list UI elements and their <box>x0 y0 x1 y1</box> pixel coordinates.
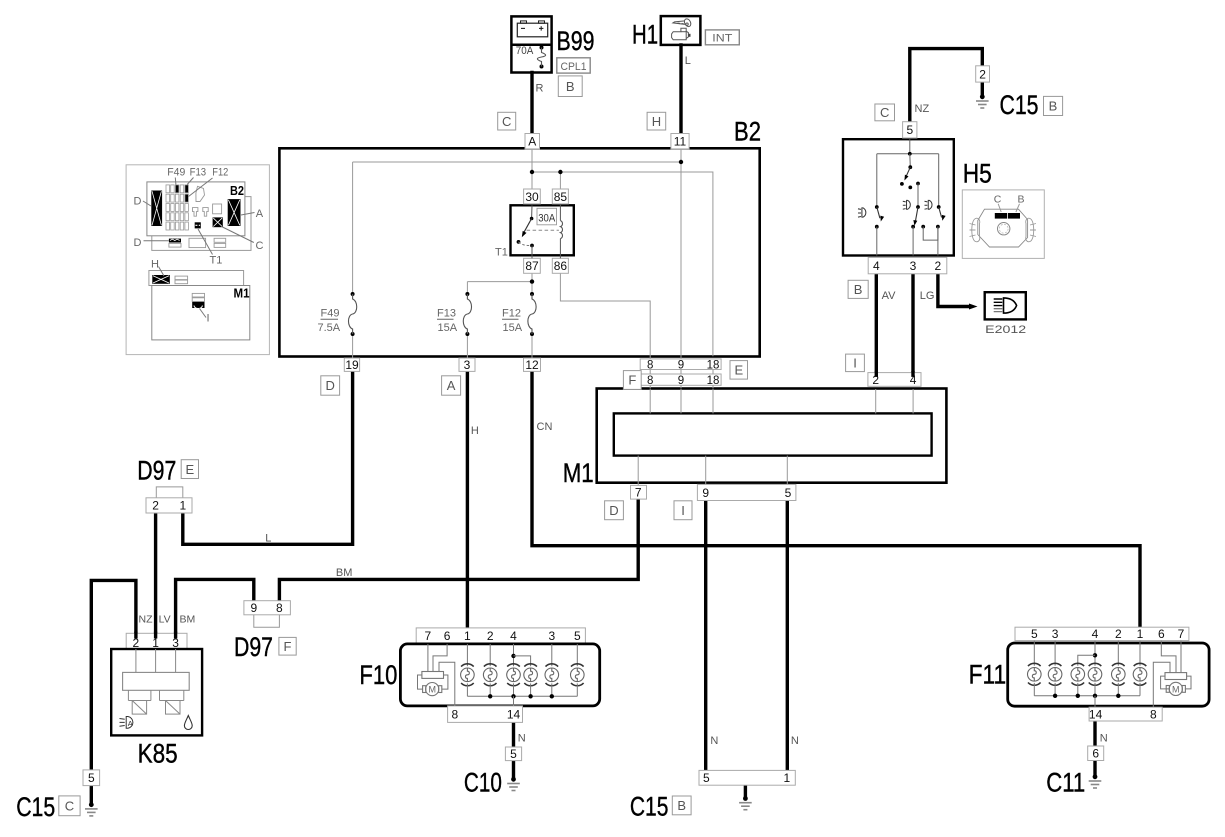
svg-text:5: 5 <box>1031 627 1038 641</box>
svg-text:D: D <box>134 196 142 208</box>
svg-text:B99: B99 <box>557 26 595 56</box>
svg-text:1: 1 <box>784 771 791 785</box>
svg-text:T1: T1 <box>495 246 508 258</box>
svg-text:2: 2 <box>152 499 159 513</box>
svg-text:F49: F49 <box>167 167 185 179</box>
svg-text:N: N <box>791 735 799 747</box>
svg-text:C15: C15 <box>1000 90 1039 120</box>
svg-text:1: 1 <box>464 629 471 643</box>
svg-text:30: 30 <box>525 190 539 204</box>
svg-text:AV: AV <box>882 290 897 302</box>
svg-text:L: L <box>265 533 271 545</box>
svg-text:9: 9 <box>678 375 684 387</box>
svg-text:6: 6 <box>444 629 451 643</box>
svg-text:F13: F13 <box>437 308 456 320</box>
svg-text:5: 5 <box>510 747 517 761</box>
svg-text:7: 7 <box>635 486 642 500</box>
svg-text:8: 8 <box>1150 707 1157 721</box>
svg-text:D: D <box>326 378 335 393</box>
svg-text:D: D <box>609 503 618 518</box>
svg-text:H: H <box>151 259 159 271</box>
svg-text:5: 5 <box>703 771 710 785</box>
svg-text:7.5A: 7.5A <box>318 322 341 334</box>
svg-text:M1: M1 <box>234 287 250 301</box>
svg-text:C: C <box>256 240 264 252</box>
svg-text:15A: 15A <box>503 322 523 334</box>
svg-text:C15: C15 <box>16 792 55 822</box>
svg-text:B: B <box>677 798 686 813</box>
svg-text:C10: C10 <box>464 768 502 798</box>
svg-text:87: 87 <box>525 259 539 273</box>
svg-text:5: 5 <box>574 629 581 643</box>
svg-text:8: 8 <box>647 375 653 387</box>
svg-text:F12: F12 <box>502 308 521 320</box>
svg-text:3: 3 <box>548 629 555 643</box>
svg-text:E2012: E2012 <box>985 324 1026 336</box>
svg-text:14: 14 <box>1089 707 1103 721</box>
svg-text:A: A <box>528 135 536 149</box>
svg-text:NZ: NZ <box>139 614 154 626</box>
svg-text:A: A <box>447 378 456 393</box>
svg-text:7: 7 <box>1178 627 1185 641</box>
svg-text:2: 2 <box>935 259 942 273</box>
svg-text:I: I <box>853 356 857 371</box>
svg-text:F: F <box>284 639 292 654</box>
svg-text:5: 5 <box>88 771 95 785</box>
svg-text:A: A <box>128 719 133 728</box>
svg-text:B2: B2 <box>230 184 244 198</box>
svg-text:19: 19 <box>345 358 359 372</box>
svg-text:1: 1 <box>1137 627 1144 641</box>
svg-text:4: 4 <box>510 629 517 643</box>
svg-text:F10: F10 <box>359 660 397 690</box>
svg-text:D97: D97 <box>234 632 273 662</box>
svg-text:9: 9 <box>250 601 257 615</box>
svg-text:15A: 15A <box>438 322 458 334</box>
svg-text:C: C <box>65 799 74 814</box>
svg-text:N: N <box>518 733 526 745</box>
svg-text:A: A <box>256 208 264 220</box>
svg-text:H5: H5 <box>963 158 992 188</box>
svg-text:M: M <box>428 685 436 695</box>
svg-text:6: 6 <box>1092 747 1099 761</box>
svg-text:C: C <box>880 105 889 120</box>
svg-text:M1: M1 <box>563 458 594 488</box>
svg-text:E: E <box>734 363 743 378</box>
svg-text:6: 6 <box>1158 627 1165 641</box>
svg-text:4: 4 <box>1092 627 1099 641</box>
svg-text:1: 1 <box>179 499 186 513</box>
svg-text:5: 5 <box>785 486 792 500</box>
svg-text:18: 18 <box>707 375 720 387</box>
svg-text:CN: CN <box>537 421 553 433</box>
svg-text:12: 12 <box>525 358 539 372</box>
svg-text:B: B <box>854 282 863 297</box>
svg-text:C11: C11 <box>1046 768 1085 798</box>
svg-text:T1: T1 <box>210 255 223 267</box>
svg-text:LV: LV <box>159 614 171 626</box>
svg-text:NZ: NZ <box>915 103 930 115</box>
svg-text:B: B <box>1017 194 1024 206</box>
svg-text:7: 7 <box>425 629 432 643</box>
svg-text:2: 2 <box>1115 627 1122 641</box>
svg-text:B2: B2 <box>734 117 761 147</box>
svg-text:8: 8 <box>276 601 283 615</box>
svg-text:2: 2 <box>979 67 986 81</box>
svg-text:H: H <box>471 425 479 437</box>
svg-text:R: R <box>536 83 544 95</box>
svg-text:F49: F49 <box>321 308 340 320</box>
svg-text:2: 2 <box>487 629 494 643</box>
svg-text:85: 85 <box>554 190 568 204</box>
svg-text:3: 3 <box>464 358 471 372</box>
svg-text:BM: BM <box>336 567 353 579</box>
svg-text:C15: C15 <box>630 792 669 822</box>
svg-text:F13: F13 <box>190 167 207 179</box>
svg-text:CPL1: CPL1 <box>561 61 587 73</box>
svg-text:I: I <box>207 313 210 325</box>
svg-text:H: H <box>652 114 661 129</box>
svg-text:H1: H1 <box>632 20 658 50</box>
svg-text:30A: 30A <box>538 212 556 224</box>
svg-text:C: C <box>994 194 1002 206</box>
svg-text:C: C <box>502 114 511 129</box>
svg-text:I: I <box>681 503 685 518</box>
svg-text:3: 3 <box>1052 627 1059 641</box>
svg-text:F: F <box>628 373 636 388</box>
svg-text:3: 3 <box>910 259 917 273</box>
svg-text:BM: BM <box>180 614 196 626</box>
svg-text:D97: D97 <box>137 456 176 486</box>
svg-text:9: 9 <box>702 486 709 500</box>
svg-text:5: 5 <box>906 123 913 137</box>
svg-text:8: 8 <box>451 708 458 722</box>
svg-text:F11: F11 <box>969 660 1007 690</box>
svg-text:86: 86 <box>554 259 568 273</box>
svg-text:4: 4 <box>873 259 880 273</box>
svg-text:B: B <box>1049 99 1058 114</box>
svg-text:11: 11 <box>674 135 687 149</box>
svg-text:LG: LG <box>920 290 935 302</box>
svg-text:F12: F12 <box>212 167 228 179</box>
svg-text:N: N <box>710 735 718 747</box>
svg-text:E: E <box>185 462 194 477</box>
svg-text:D: D <box>134 237 142 249</box>
svg-text:M: M <box>1172 684 1180 694</box>
svg-text:INT: INT <box>712 33 732 45</box>
svg-text:70A: 70A <box>516 45 534 57</box>
svg-text:L: L <box>685 55 691 67</box>
svg-text:N: N <box>1100 733 1108 745</box>
svg-text:14: 14 <box>507 708 521 722</box>
svg-text:B: B <box>566 79 575 94</box>
svg-text:K85: K85 <box>138 738 178 768</box>
